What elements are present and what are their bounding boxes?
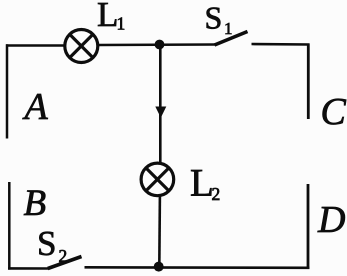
svg-text:L: L [190, 162, 214, 205]
node junction bottom [154, 262, 164, 272]
svg-text:C: C [321, 91, 347, 133]
wire bottom-right horizontal [85, 266, 310, 269]
label L2 [190, 162, 220, 205]
wire top-right horizontal [252, 43, 310, 46]
svg-text:D: D [317, 199, 345, 241]
node junction top [155, 40, 165, 50]
wire top-middle horizontal [98, 43, 215, 46]
svg-text:1: 1 [117, 14, 126, 34]
wire left vertical lower [8, 182, 11, 270]
svg-text:S: S [37, 224, 56, 263]
wire right vertical upper [307, 44, 310, 120]
lamp L2 [141, 163, 174, 196]
wire top-left horizontal [6, 44, 64, 47]
lamp L1 [65, 30, 98, 63]
svg-text:L: L [97, 0, 118, 34]
wire bottom-left horizontal [8, 267, 49, 270]
label S1 [205, 0, 233, 38]
svg-text:2: 2 [212, 184, 221, 204]
svg-text:B: B [24, 183, 47, 224]
wire middle vertical upper [159, 45, 162, 164]
svg-text:1: 1 [224, 19, 233, 38]
svg-text:A: A [22, 86, 49, 128]
current arrow [155, 107, 166, 118]
switch S2 blade [48, 257, 82, 269]
wire middle vertical lower [158, 196, 161, 267]
svg-text:S: S [205, 0, 223, 36]
wire left vertical upper [6, 44, 9, 138]
svg-text:2: 2 [59, 246, 68, 266]
wire right vertical lower [307, 184, 310, 269]
switch S1 blade [215, 32, 248, 46]
label L1 [97, 0, 125, 34]
label S2 [37, 224, 67, 266]
